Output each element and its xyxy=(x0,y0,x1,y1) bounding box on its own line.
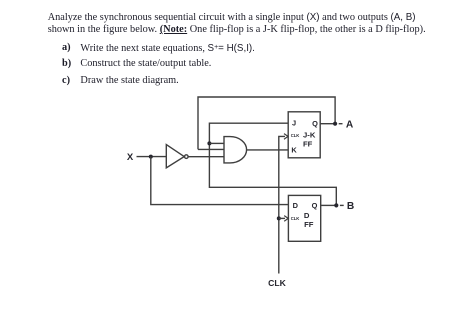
svg-text:Q: Q xyxy=(312,201,318,210)
J-K flip-flop box xyxy=(288,112,320,158)
node A junction dot xyxy=(333,122,337,126)
wire Q of D FF to node B xyxy=(321,204,337,206)
wire stub to B label xyxy=(340,204,344,206)
svg-text:CLK: CLK xyxy=(291,133,300,138)
wire X input xyxy=(137,156,167,158)
wire AND middle input xyxy=(198,148,225,150)
item b xyxy=(62,58,71,70)
svg-text:CLK: CLK xyxy=(291,216,300,221)
wire CLK branch to D FF clock xyxy=(279,217,285,219)
wire inverter output to AND bottom input xyxy=(188,156,224,158)
svg-text:J-K: J-K xyxy=(303,131,316,140)
wire Q of JK to node A xyxy=(320,123,335,125)
wire CLK vertical with branch to JK clock xyxy=(279,136,285,273)
svg-text:J: J xyxy=(292,119,296,128)
node CLK junction dot for D FF branch xyxy=(277,216,281,220)
svg-text:B: B xyxy=(347,201,354,212)
wire stub to A label xyxy=(339,123,343,125)
clock arrowhead into D FF xyxy=(284,216,288,222)
clock arrowhead into JK xyxy=(284,134,288,140)
svg-text:D: D xyxy=(293,201,299,210)
wire feedback from A: top loop down to AND middle input xyxy=(198,97,335,149)
svg-text:Q: Q xyxy=(312,119,318,128)
svg-text:FF: FF xyxy=(303,140,313,149)
wire AND output to K input xyxy=(247,149,288,151)
node B junction dot xyxy=(334,203,338,207)
svg-text:FF: FF xyxy=(304,220,314,229)
node junction dot on B feedback to AND top input xyxy=(207,141,211,145)
svg-text:CLK: CLK xyxy=(268,278,286,288)
node X junction dot xyxy=(149,155,153,159)
problem statement line 1 xyxy=(48,12,416,24)
svg-text:A: A xyxy=(346,120,354,131)
inverter (NOT gate) xyxy=(166,145,184,168)
item c xyxy=(62,75,70,87)
item a xyxy=(62,42,71,54)
wire feedback from B up to J xyxy=(209,123,336,205)
problem statement line 2 xyxy=(48,24,426,36)
D flip-flop box xyxy=(288,195,320,241)
AND gate U1 xyxy=(224,137,247,163)
svg-text:D: D xyxy=(304,211,310,220)
wire X down-branch to D input xyxy=(151,157,289,205)
wire AND top input xyxy=(209,142,223,144)
svg-text:X: X xyxy=(127,152,134,163)
svg-text:K: K xyxy=(291,146,297,155)
